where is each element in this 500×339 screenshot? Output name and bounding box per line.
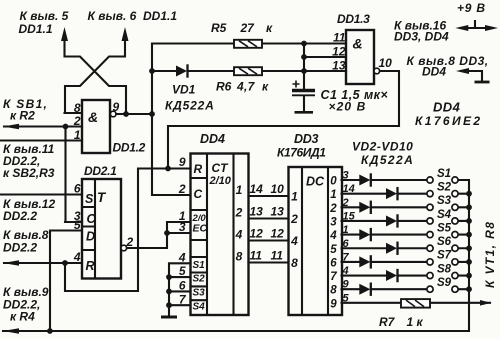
- svg-text:1: 1: [343, 224, 349, 236]
- svg-text:2: 2: [342, 197, 349, 209]
- svg-text:к SB2,R3: к SB2,R3: [3, 166, 55, 180]
- svg-text:5: 5: [330, 244, 337, 256]
- svg-text:27: 27: [240, 21, 256, 35]
- svg-text:R7: R7: [379, 315, 396, 329]
- svg-text:DD4: DD4: [200, 132, 225, 146]
- svg-text:&: &: [353, 36, 363, 52]
- svg-text:S1: S1: [193, 260, 206, 271]
- svg-text:9: 9: [343, 279, 350, 291]
- svg-text:к R2: к R2: [10, 109, 35, 123]
- svg-text:к: к: [262, 80, 269, 94]
- svg-text:S9: S9: [437, 277, 452, 289]
- svg-text:CT: CT: [212, 161, 230, 175]
- svg-text:C: C: [87, 212, 97, 226]
- svg-text:4,7: 4,7: [236, 80, 256, 94]
- svg-text:5: 5: [74, 218, 81, 232]
- svg-text:S3: S3: [437, 195, 452, 207]
- svg-text:6: 6: [179, 279, 186, 293]
- svg-text:R: R: [194, 162, 203, 176]
- svg-text:DD4: DD4: [422, 65, 446, 79]
- svg-text:КД522А: КД522А: [361, 153, 414, 167]
- svg-text:S2: S2: [193, 274, 206, 285]
- svg-text:8: 8: [74, 101, 81, 115]
- svg-text:7: 7: [343, 251, 350, 263]
- svg-text:S7: S7: [437, 250, 452, 262]
- svg-text:S3: S3: [193, 288, 206, 299]
- svg-text:10: 10: [379, 56, 393, 70]
- svg-text:13: 13: [250, 205, 264, 219]
- svg-text:5: 5: [343, 292, 350, 304]
- svg-text:10: 10: [271, 182, 285, 196]
- svg-text:14: 14: [250, 182, 264, 196]
- svg-text:13: 13: [332, 59, 346, 73]
- svg-text:S1: S1: [437, 168, 451, 180]
- svg-text:DD2.2: DD2.2: [3, 209, 37, 223]
- svg-text:12: 12: [271, 227, 285, 241]
- svg-text:2: 2: [329, 203, 337, 215]
- svg-text:К VT1, R8: К VT1, R8: [483, 221, 497, 288]
- svg-text:К выв.8 DD3,: К выв.8 DD3,: [407, 54, 489, 68]
- svg-text:EC: EC: [193, 223, 208, 235]
- svg-text:9: 9: [113, 100, 120, 114]
- svg-text:1: 1: [74, 128, 81, 142]
- svg-text:DD2.1: DD2.1: [84, 164, 117, 178]
- svg-text:К выв. 6: К выв. 6: [88, 9, 137, 23]
- svg-text:КД522А: КД522А: [165, 99, 215, 113]
- svg-text:2/10: 2/10: [209, 175, 232, 187]
- svg-text:S5: S5: [437, 222, 452, 234]
- svg-text:4: 4: [290, 234, 298, 248]
- svg-text:К176ИЕ2: К176ИЕ2: [415, 114, 483, 128]
- svg-text:×20 В: ×20 В: [329, 100, 367, 114]
- svg-text:4: 4: [342, 265, 349, 277]
- svg-text:0: 0: [330, 176, 337, 188]
- svg-text:S2: S2: [437, 181, 452, 193]
- svg-text:&: &: [88, 109, 98, 125]
- svg-text:S6: S6: [437, 236, 452, 248]
- svg-text:+9 В: +9 В: [457, 1, 486, 15]
- svg-text:12: 12: [250, 227, 264, 241]
- svg-text:DD1.1: DD1.1: [19, 22, 53, 36]
- svg-text:DD3, DD4: DD3, DD4: [394, 30, 449, 44]
- svg-text:S: S: [85, 192, 94, 206]
- svg-text:8: 8: [236, 250, 243, 264]
- svg-text:9: 9: [330, 298, 337, 310]
- svg-text:S8: S8: [437, 263, 452, 275]
- svg-text:2: 2: [235, 206, 243, 220]
- svg-text:DD3: DD3: [294, 132, 318, 146]
- svg-text:11: 11: [271, 249, 284, 263]
- svg-text:6: 6: [74, 182, 81, 196]
- svg-text:2: 2: [290, 212, 298, 226]
- svg-text:R6: R6: [216, 80, 232, 94]
- svg-text:К выв. 5: К выв. 5: [20, 9, 69, 23]
- svg-text:DD1.1: DD1.1: [143, 9, 177, 23]
- svg-text:4: 4: [329, 230, 337, 242]
- svg-text:6: 6: [330, 257, 337, 269]
- svg-text:DD1.2: DD1.2: [113, 141, 146, 155]
- svg-text:к R4: к R4: [10, 310, 35, 324]
- svg-text:7: 7: [330, 271, 337, 283]
- svg-text:11: 11: [333, 31, 346, 45]
- svg-text:1: 1: [330, 189, 336, 201]
- svg-text:8: 8: [291, 256, 298, 270]
- svg-text:6: 6: [343, 238, 350, 250]
- svg-text:DD1.3: DD1.3: [337, 12, 370, 26]
- svg-text:12: 12: [332, 45, 346, 59]
- svg-text:2: 2: [73, 114, 81, 128]
- svg-text:3: 3: [179, 220, 186, 234]
- svg-text:13: 13: [271, 205, 285, 219]
- svg-text:2: 2: [178, 182, 186, 196]
- svg-text:R: R: [86, 259, 95, 273]
- svg-text:4: 4: [178, 251, 186, 265]
- svg-text:14: 14: [343, 183, 355, 195]
- svg-text:4: 4: [235, 228, 243, 242]
- svg-text:C: C: [194, 187, 203, 201]
- svg-text:S4: S4: [437, 209, 452, 221]
- svg-text:9: 9: [179, 155, 186, 169]
- svg-text:DD4: DD4: [433, 100, 461, 115]
- svg-text:S4: S4: [193, 302, 206, 313]
- svg-text:3: 3: [343, 170, 349, 182]
- svg-text:1 к: 1 к: [407, 315, 424, 329]
- svg-text:R5: R5: [211, 21, 227, 35]
- svg-text:к: к: [266, 21, 273, 35]
- svg-text:3: 3: [330, 216, 337, 228]
- svg-text:1: 1: [236, 183, 243, 197]
- svg-text:VD1: VD1: [172, 83, 196, 97]
- svg-text:4: 4: [73, 250, 81, 264]
- svg-text:8: 8: [330, 285, 337, 297]
- svg-text:К176ИД1: К176ИД1: [277, 146, 326, 160]
- svg-text:11: 11: [250, 249, 263, 263]
- svg-text:1: 1: [291, 190, 298, 204]
- svg-text:DD2.2: DD2.2: [3, 241, 37, 255]
- svg-text:D: D: [86, 230, 95, 244]
- svg-text:15: 15: [343, 210, 356, 222]
- svg-text:5: 5: [179, 264, 186, 278]
- svg-text:DC: DC: [306, 175, 325, 189]
- svg-text:VD2-VD10: VD2-VD10: [352, 140, 413, 154]
- svg-text:2: 2: [126, 235, 134, 249]
